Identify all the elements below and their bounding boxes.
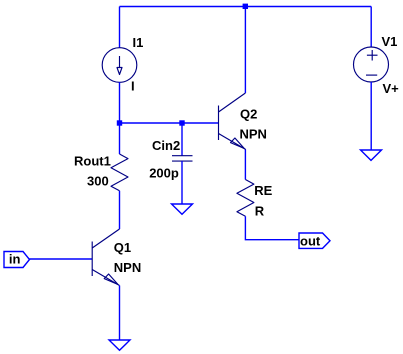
svg-text:Rout1: Rout1 — [74, 154, 111, 169]
wire Cin2 top stub — [181, 123, 183, 156]
svg-text:Q1: Q1 — [114, 240, 131, 255]
wire Q2 collector to top rail — [244, 7, 246, 94]
wire mid rail to Q2 base — [120, 122, 219, 124]
svg-text:200p: 200p — [149, 166, 179, 181]
svg-text:Q2: Q2 — [240, 107, 257, 122]
svg-text:V+: V+ — [383, 81, 400, 96]
junction mid rail / Cin2 — [179, 120, 184, 125]
voltage source V1 — [354, 47, 389, 82]
resistor RE — [237, 180, 254, 217]
transistor Q2 — [219, 93, 246, 150]
current source I1 — [102, 48, 137, 83]
wire Rout1 bottom to Q1 collector — [119, 191, 121, 229]
port out — [299, 233, 330, 248]
wire RE to out port — [245, 216, 299, 239]
svg-text:I: I — [131, 79, 135, 94]
junction top rail / Q2 collector — [243, 4, 248, 9]
ground below V1 — [361, 150, 382, 160]
resistor Rout1 — [111, 154, 128, 191]
svg-text:in: in — [9, 252, 21, 267]
junction mid rail left — [117, 120, 122, 125]
port in — [4, 252, 30, 268]
svg-text:out: out — [300, 234, 321, 249]
ground below Q1 — [109, 340, 130, 350]
wire Q1 emitter to ground — [119, 286, 121, 341]
svg-text:Cin2: Cin2 — [152, 138, 180, 153]
svg-text:RE: RE — [254, 183, 272, 198]
wire V1 bottom to ground — [370, 82, 372, 150]
svg-text:300: 300 — [87, 174, 109, 189]
wire Cin2 bottom stub — [181, 161, 183, 204]
wire Q2 emitter to RE — [244, 150, 246, 180]
wire top rail to V1 — [370, 7, 372, 48]
svg-text:I1: I1 — [133, 35, 144, 50]
wire I1 bottom to Rout1 top — [119, 82, 121, 154]
wire top rail — [120, 6, 372, 8]
wire left rail upper (top rail to I1) — [119, 7, 121, 49]
transistor Q1 — [92, 229, 119, 286]
wire in port to Q1 base — [30, 258, 93, 260]
svg-text:NPN: NPN — [240, 127, 267, 142]
svg-text:NPN: NPN — [114, 260, 141, 275]
svg-text:V1: V1 — [382, 34, 398, 49]
ground below Cin2 — [172, 204, 193, 214]
capacitor Cin2 — [172, 156, 193, 161]
svg-text:R: R — [255, 203, 265, 218]
